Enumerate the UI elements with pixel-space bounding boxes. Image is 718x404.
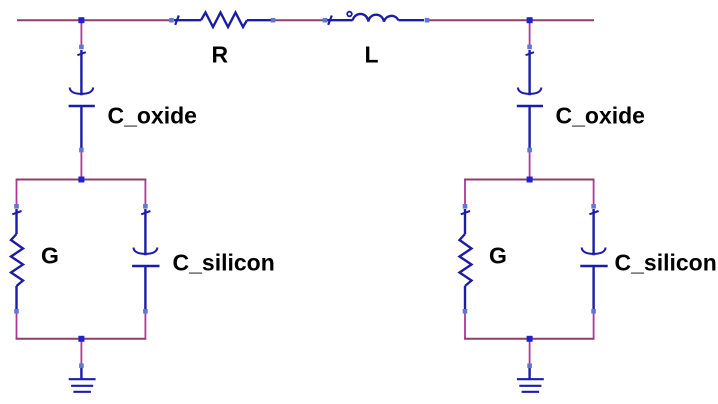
svg-text:R: R xyxy=(212,42,229,68)
pin C_oxide_right.2 xyxy=(527,148,532,153)
pin L.2 xyxy=(425,18,430,23)
pin C_silicon_left.1 xyxy=(143,204,148,209)
node junction top-left xyxy=(78,17,84,23)
pin L.1 xyxy=(323,18,328,23)
pin G_right.2 xyxy=(463,309,468,314)
node box1 right edge lower xyxy=(144,312,146,339)
node box1 left edge upper xyxy=(16,180,18,207)
node junction box2 bottom xyxy=(527,336,533,342)
svg-text:C_silicon: C_silicon xyxy=(615,249,717,275)
pin ground_right xyxy=(527,363,532,368)
node box1 bottom edge xyxy=(16,338,147,340)
resistor G right xyxy=(460,209,472,309)
pin C_silicon_right.2 xyxy=(591,309,596,314)
node junction top-right xyxy=(527,17,533,23)
resistor R xyxy=(174,13,271,28)
resistor G left xyxy=(11,209,23,309)
ground right xyxy=(517,368,544,392)
ground left xyxy=(69,368,96,392)
svg-text:C_silicon: C_silicon xyxy=(173,249,275,275)
wire right shunt lower (C_oxide pin 2 to box top) xyxy=(529,150,531,180)
capacitor C_oxide left xyxy=(69,50,95,150)
node box1 left edge lower xyxy=(16,312,18,339)
pin C_oxide_left.2 xyxy=(79,148,84,153)
wire right ground stub xyxy=(529,339,531,366)
node junction box2 top xyxy=(527,177,533,183)
wire top net segment 1 (input to R pin 1) xyxy=(17,19,172,21)
pin G_left.2 xyxy=(14,309,19,314)
pin C_silicon_right.1 xyxy=(591,204,596,209)
svg-text:L: L xyxy=(365,42,379,68)
capacitor C_silicon right xyxy=(580,209,607,309)
pin R.2 xyxy=(271,18,276,23)
pin G_left.1 xyxy=(14,204,19,209)
node junction box1 top xyxy=(78,177,84,183)
pin C_oxide_right.1 xyxy=(527,45,532,50)
node box1 top edge xyxy=(16,179,147,181)
capacitor C_silicon left xyxy=(132,209,159,309)
pin C_oxide_left.1 xyxy=(79,45,84,50)
wire right shunt upper (junction to C_oxide pin 1) xyxy=(529,20,531,48)
node box2 right edge upper xyxy=(593,180,595,207)
node box2 left edge upper xyxy=(464,180,466,207)
wire left shunt lower (C_oxide pin 2 to box top) xyxy=(80,150,82,180)
pin G_right.1 xyxy=(463,204,468,209)
node box2 left edge lower xyxy=(464,312,466,339)
node box2 top edge xyxy=(464,179,594,181)
node box1 right edge upper xyxy=(144,180,146,207)
wire left shunt upper (junction to C_oxide pin 1) xyxy=(80,20,82,48)
svg-text:C_oxide: C_oxide xyxy=(556,102,645,128)
inductor L xyxy=(327,12,424,25)
wire top net segment 3 (L pin 2 to right junction / output) xyxy=(427,19,595,21)
node box2 right edge lower xyxy=(593,312,595,339)
wire left ground stub xyxy=(80,339,82,366)
capacitor C_oxide right xyxy=(517,50,543,150)
pin C_silicon_left.2 xyxy=(143,309,148,314)
node junction box1 bottom xyxy=(78,336,84,342)
wire top net segment 2 (R pin 2 to L pin 1) xyxy=(273,19,326,21)
svg-text:C_oxide: C_oxide xyxy=(108,102,197,128)
svg-text:G: G xyxy=(489,243,507,269)
pin R.1 xyxy=(169,18,174,23)
svg-text:G: G xyxy=(41,243,59,269)
node box2 bottom edge xyxy=(464,338,594,340)
pin ground_left xyxy=(79,363,84,368)
